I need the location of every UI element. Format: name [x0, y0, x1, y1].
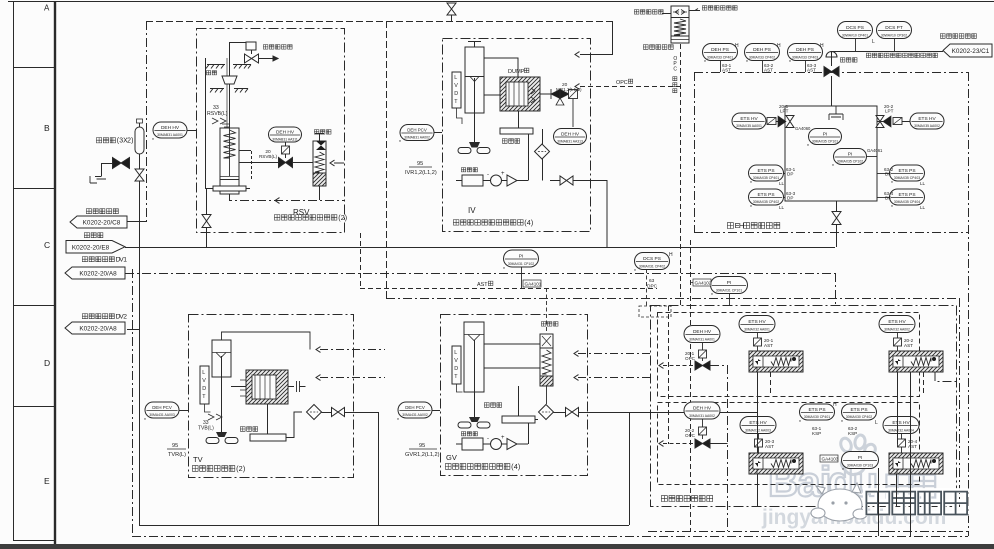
label 蓄调器 GV [461, 432, 465, 436]
svg-text:*: * [704, 60, 706, 66]
svg-text:PI: PI [848, 151, 853, 157]
svg-text:LL: LL [920, 205, 926, 210]
svg-text:30WAV10 CP302: 30WAV10 CP302 [881, 34, 907, 38]
svg-text:DEH HV: DEH HV [161, 125, 180, 131]
svg-text:*: * [842, 468, 844, 474]
trip valve 1 [695, 361, 710, 370]
test valve left black [778, 116, 786, 127]
instrument ETS PS trip L [842, 404, 877, 420]
outer boundary right edge [968, 72, 970, 536]
svg-text:AST: AST [764, 343, 773, 348]
watermark 经验 [886, 475, 909, 498]
DV2 line into TV area [127, 329, 139, 331]
RSV drain line [230, 194, 345, 201]
svg-text:TVR(L): TVR(L) [168, 452, 186, 458]
GV controller box [462, 438, 483, 450]
svg-text:GA4102: GA4102 [695, 281, 712, 286]
solenoid square trip1 [699, 350, 707, 358]
OPC line arrow [580, 86, 680, 88]
wire diaphragm valve down to test block [831, 76, 833, 106]
svg-text:C: C [44, 240, 50, 250]
tag K0202-20/A8 DV2 [82, 314, 87, 319]
instrument ETS HV left [732, 113, 766, 129]
svg-text:K0202-20/C8: K0202-20/C8 [83, 220, 121, 227]
ETS cartridge block 20-4 [889, 453, 943, 474]
label 伺服阀 TV [240, 427, 245, 432]
EH test block manifold [785, 106, 877, 201]
dashed drop x923 [923, 372, 925, 396]
dashed vertical x360 [360, 233, 362, 288]
wire DEH HV to RSV box [187, 130, 196, 132]
instrument DEH PS 1 [703, 44, 738, 61]
svg-text:V: V [202, 378, 206, 384]
GV drain drop x629 [629, 412, 631, 525]
instrument ETS PS 63-4 [890, 189, 925, 205]
instrument ETS PS 63-2 [890, 165, 925, 181]
watermark cat mascot [811, 483, 867, 521]
GV piston rod [474, 340, 476, 420]
svg-text:K0202-20/A8: K0202-20/A8 [79, 271, 117, 278]
trip drain header y531 [648, 531, 968, 533]
svg-text:GVR1,2(L1,2): GVR1,2(L1,2) [405, 452, 440, 458]
dashed drop x690 [690, 240, 692, 531]
instrument PI mid [504, 250, 539, 267]
svg-text:K0202-20/E8: K0202-20/E8 [72, 244, 110, 251]
svg-text:DEH HV: DEH HV [693, 405, 712, 411]
instrument ETS PS 63-3 [749, 189, 784, 205]
svg-text:L: L [454, 75, 457, 81]
svg-text:LPT: LPT [780, 109, 789, 114]
svg-text:H: H [735, 43, 739, 49]
controller box [462, 175, 483, 186]
svg-text:30MAX31 CP102: 30MAX31 CP102 [508, 262, 534, 266]
svg-text:30MAX31 CP402: 30MAX31 CP402 [639, 265, 665, 269]
svg-text:): ) [345, 214, 347, 222]
trip control block box [651, 306, 957, 507]
trip inner dashed box upper [658, 313, 920, 397]
svg-text:*: * [399, 140, 401, 146]
svg-text:C: C [673, 66, 677, 72]
svg-text:L: L [454, 350, 457, 356]
label 压缩空气进 [634, 10, 639, 15]
svg-text:OPC: OPC [685, 433, 696, 438]
solenoid square ETS 20-2 [894, 338, 902, 346]
amplifier triangle [507, 175, 517, 186]
svg-text:30MAX33 CP401: 30MAX33 CP401 [707, 56, 733, 60]
TV trip inlet arrows [316, 347, 321, 353]
wire top stub [451, 4, 453, 21]
svg-text:95: 95 [172, 443, 178, 449]
svg-text:DP: DP [787, 196, 793, 201]
TV cylinder body [212, 340, 231, 377]
svg-text:30MAX32 AA002: 30MAX32 AA002 [884, 328, 910, 332]
svg-text:A: A [44, 4, 50, 13]
OPC vertical dashed x680 [680, 44, 682, 306]
svg-text:-: - [487, 436, 489, 442]
svg-text:ETS PS: ETS PS [808, 407, 825, 413]
wire PI2 to manifold [867, 156, 878, 158]
instrument ETS PS trip H [800, 404, 835, 420]
instrument PI right mid [711, 277, 748, 294]
svg-text:DCS PS: DCS PS [846, 25, 864, 31]
svg-text:H: H [777, 43, 781, 49]
small dashed box below DCS PS [639, 306, 671, 317]
svg-text:*: * [397, 418, 399, 424]
svg-text:PI: PI [858, 455, 863, 461]
svg-text:LL: LL [779, 181, 785, 186]
wires GV controller [456, 423, 529, 444]
capacitor symbol right of servo [288, 381, 306, 392]
instrument DEH HV trip1 [684, 326, 720, 343]
svg-text:E: E [44, 476, 50, 486]
svg-text:KSP: KSP [812, 431, 821, 436]
svg-text:DEH PCV: DEH PCV [152, 405, 172, 410]
svg-text:AST: AST [477, 282, 488, 288]
instrument DCS PS top [838, 22, 873, 39]
svg-text:D: D [454, 366, 458, 372]
top dashed header line [146, 21, 612, 23]
svg-text:AST: AST [722, 68, 731, 73]
label GA4103 [820, 455, 838, 462]
wire ETS PS 63-2 [877, 173, 890, 175]
test valve right black [883, 116, 891, 127]
svg-text:30MAX35 AA002: 30MAX35 AA002 [914, 124, 940, 128]
svg-text:DEH PCV: DEH PCV [407, 127, 427, 132]
tag K0202-23/C1 [943, 44, 992, 57]
label 卸载阀 GV [541, 322, 546, 327]
svg-text:ETS PS: ETS PS [757, 168, 774, 174]
wire ETS PS 63-1 [784, 173, 786, 175]
svg-text:+: + [501, 171, 505, 177]
svg-text:30MAX33 CP403: 30MAX33 CP403 [792, 56, 818, 60]
svg-text:LPT: LPT [885, 109, 894, 114]
svg-text:30WAV10 CP401: 30WAV10 CP401 [842, 34, 868, 38]
page top border [8, 1, 994, 3]
steam valve disc [222, 76, 237, 84]
wire compressed air in [662, 13, 671, 15]
svg-text:95: 95 [417, 161, 423, 167]
TV unit box [189, 315, 354, 478]
wire cylinder to dump valve [484, 58, 518, 77]
wire PS drain [878, 468, 880, 536]
RSV cylinder left guide line [206, 58, 251, 189]
svg-text:PI: PI [519, 253, 524, 259]
svg-text:H: H [669, 252, 673, 258]
RSV base plate [213, 186, 246, 191]
svg-text:RSVB(L): RSVB(L) [207, 111, 228, 117]
svg-text:30MAX30 CP103: 30MAX30 CP103 [847, 464, 873, 468]
svg-text:30MAX31 AA002: 30MAX31 AA002 [689, 414, 715, 418]
svg-text:ETS PS: ETS PS [850, 407, 867, 413]
HP oil header y247 [125, 247, 835, 249]
svg-text:DEH PCV: DEH PCV [405, 405, 425, 410]
solenoid valve RSV [285, 154, 287, 158]
svg-text:ETS PS: ETS PS [898, 192, 915, 198]
svg-text:30MAX35 AA001: 30MAX35 AA001 [736, 124, 762, 128]
svg-text:*: * [832, 164, 834, 170]
IV isolation valve [560, 176, 573, 185]
svg-text:DCS PT: DCS PT [885, 25, 903, 31]
outer boundary bottom edge [132, 536, 968, 538]
svg-text:2: 2 [123, 313, 127, 320]
divider dashed vertical x386 [386, 21, 388, 298]
svg-text:AST: AST [904, 343, 913, 348]
instrument DCS PS mid [635, 253, 670, 270]
svg-text:ETS HV: ETS HV [918, 116, 936, 122]
svg-text:LL: LL [779, 205, 785, 210]
RSV cylinder spring [224, 130, 236, 158]
svg-text:DP: DP [787, 172, 793, 177]
wire oil header to tag [831, 51, 943, 53]
wires GV drain [535, 413, 757, 420]
instrument DEH HV main [153, 122, 187, 138]
wire test block to HP header [836, 225, 838, 247]
GV cylinder body [464, 322, 484, 392]
row divider BC [13, 188, 55, 190]
TV filter [307, 405, 322, 420]
steam seat hatch right [233, 65, 251, 69]
svg-text:DEH HV: DEH HV [561, 131, 580, 137]
solenoid square ETS 20-1 [754, 338, 762, 346]
GV unloading/servo valve [540, 334, 553, 348]
svg-text:MR1,2(L1,2): MR1,2(L1,2) [556, 87, 582, 92]
GV amplifier [507, 439, 517, 450]
IV flapper nozzle [469, 142, 480, 148]
page bottom bar [0, 544, 994, 549]
IV piston [465, 76, 484, 78]
svg-text:*: * [152, 138, 154, 144]
svg-text:95: 95 [419, 443, 425, 449]
wire arrow opc2 [659, 441, 664, 447]
servo base plate [500, 128, 533, 134]
svg-text:ETS PS: ETS PS [757, 192, 774, 198]
accumulator 蓄能器(3X2) [96, 138, 101, 143]
svg-text:30MAX35 CP101: 30MAX35 CP101 [812, 140, 838, 144]
wire DEH PS 3 stem [805, 61, 807, 73]
svg-text:ETS HV: ETS HV [892, 420, 910, 426]
steam seat hatch left [206, 65, 225, 69]
svg-text:D: D [454, 91, 458, 97]
trip header dash-dot line y298 [386, 298, 959, 300]
svg-text:D: D [44, 358, 50, 368]
svg-text:30MAX33 CP402: 30MAX33 CP402 [749, 56, 775, 60]
label 伺服阀 IV [502, 139, 507, 144]
label 直抽气进上图 [702, 6, 707, 11]
svg-text:PI: PI [727, 280, 732, 286]
instrument ETS HV trip3 [740, 417, 776, 434]
svg-text:DUMP: DUMP [508, 69, 525, 75]
svg-text:IV: IV [468, 206, 476, 215]
svg-text:AST: AST [908, 444, 917, 449]
svg-text:GA4101: GA4101 [525, 282, 542, 287]
IV filter [535, 144, 550, 159]
svg-text:RSVB(L): RSVB(L) [259, 154, 278, 159]
wire TV base to filter [286, 412, 302, 438]
wire solenoid to unloading valve [293, 162, 314, 164]
accumulator drain valve [135, 169, 144, 181]
svg-text:*: * [634, 269, 636, 275]
row divider AB [13, 67, 55, 69]
instrument DEH PCV GV [398, 402, 432, 418]
svg-text:GV: GV [446, 453, 457, 462]
RSV outer dashed edge x146 [146, 21, 148, 221]
wire DEH to solenoid [285, 142, 287, 146]
trip header right drop x959 [959, 298, 961, 507]
OPC feed dashed x668 [668, 306, 670, 444]
svg-text:30MAX35 CP402: 30MAX35 CP402 [753, 200, 779, 204]
svg-text:DCS PS: DCS PS [643, 256, 661, 262]
wire LVDT stem [457, 108, 463, 124]
svg-text:30MAX30 CP401: 30MAX30 CP401 [804, 415, 830, 419]
instrument ETS HV trip4 [883, 417, 919, 434]
wire PI right stem [729, 294, 731, 306]
svg-text:GA4060: GA4060 [795, 126, 811, 131]
instrument ETS HV trip1 [739, 316, 775, 333]
instrument DEH PS 3 [788, 44, 823, 61]
label 隔膜阀 [840, 58, 845, 63]
svg-text:*: * [789, 60, 791, 66]
instrument DEH HV trip2 [684, 402, 720, 419]
label trip block [661, 496, 667, 502]
svg-text:*: * [841, 420, 843, 426]
instrument DEH HV RSV [269, 127, 302, 142]
svg-text:30MAX32 AA001: 30MAX32 AA001 [744, 328, 770, 332]
accumulator isolation valve [113, 158, 130, 169]
IV piston rod [474, 78, 476, 142]
svg-text:DEH PS: DEH PS [711, 47, 729, 53]
svg-text:DPC: DPC [647, 284, 658, 290]
EH test area box top y72 [694, 72, 968, 74]
row divider DE [13, 406, 55, 408]
unloading valve body [313, 141, 326, 186]
svg-text:*: * [891, 181, 893, 187]
instrument ETS PS 63-1 [749, 165, 784, 181]
IV cylinder body [465, 47, 484, 113]
svg-text:K0202-23/C1: K0202-23/C1 [952, 48, 990, 55]
svg-text:V: V [454, 358, 458, 364]
valve on top stub [447, 3, 456, 15]
RSV cylinder ports [239, 150, 251, 152]
svg-text:DEH HV: DEH HV [693, 329, 712, 335]
test solenoid small box left [767, 118, 776, 125]
svg-text:D: D [202, 386, 206, 392]
DUMP valve block [500, 77, 540, 111]
svg-text:*: * [750, 205, 752, 211]
svg-text:AST: AST [765, 444, 774, 449]
svg-text:30MAX35 CP401: 30MAX35 CP401 [753, 176, 779, 180]
steam valve stem [229, 58, 231, 128]
svg-text:L: L [875, 420, 878, 426]
svg-text:H: H [820, 43, 824, 49]
instrument DEH PCV TV [145, 402, 179, 418]
ETS cartridge block 20-2 [889, 351, 943, 372]
tag K0202-20/E8 [84, 233, 89, 238]
label 伺服阀 GV [484, 403, 489, 408]
LVDT IV [452, 72, 461, 108]
instrument PI test 2 [834, 149, 867, 165]
steam seat hatch lower [210, 89, 224, 93]
instrument PI trip [842, 452, 879, 469]
wire DCS PS stem [646, 269, 648, 306]
svg-text:*: * [711, 293, 713, 299]
svg-text:30MAB31 AA002: 30MAB31 AA002 [404, 136, 430, 140]
wire right test branch [877, 121, 910, 123]
wire DEH PS 2 stem [762, 61, 764, 73]
watermark 汽机技术 [865, 491, 888, 514]
svg-text:*: * [891, 205, 893, 211]
svg-text:ETS PS: ETS PS [898, 168, 915, 174]
wire block2 drain [910, 372, 912, 536]
position pickup symbol [212, 118, 226, 124]
solenoid square ETS 20-4 [898, 439, 906, 447]
wire block2 right connector [935, 372, 956, 382]
svg-text:30MAX35 CP102: 30MAX35 CP102 [837, 160, 863, 164]
svg-text:AST: AST [764, 68, 773, 73]
wire DCS stems [855, 39, 857, 52]
IV cylinder top stem [474, 41, 476, 47]
svg-text:30MAX32 AA003: 30MAX32 AA003 [745, 429, 771, 433]
GV flapper [469, 417, 480, 422]
svg-text:30MAX31 CP101: 30MAX31 CP101 [716, 289, 742, 293]
DV1 drop x835 [835, 273, 837, 306]
svg-text:*: * [746, 60, 748, 66]
wire cylinder to servo [231, 386, 246, 388]
label GA4101 [523, 280, 541, 287]
solenoid valve MR1,2 [540, 89, 551, 99]
row divider CD [13, 305, 55, 307]
wire valve2 out [710, 443, 728, 445]
label EH test block [727, 223, 733, 229]
wire block2 to block4 [897, 372, 899, 444]
EH test area box bottom y232 [694, 232, 968, 234]
wire block1 to block3 [757, 372, 759, 453]
left return riser x139 [139, 222, 141, 525]
left frame thin line [13, 1, 15, 541]
svg-text:TVB(L): TVB(L) [198, 426, 214, 432]
svg-text:ETS HV: ETS HV [748, 319, 766, 325]
svg-text:30MAX35 CP403: 30MAX35 CP403 [894, 176, 920, 180]
wire block3 drain [757, 474, 759, 507]
TV base plate [250, 434, 286, 441]
EH test block bottom valve [836, 201, 838, 211]
left frame thick line [54, 1, 56, 544]
svg-text:*: * [750, 181, 752, 187]
svg-text:30MA431 AA003: 30MA431 AA003 [149, 413, 175, 417]
svg-text:IVR1,2(L1,2): IVR1,2(L1,2) [405, 170, 437, 176]
svg-text:30MAX30 CP402: 30MAX30 CP402 [846, 415, 872, 419]
svg-text:L: L [872, 39, 875, 45]
solenoid square ETS 20-3 [755, 439, 763, 447]
oil test valve 油动试验阀 [246, 42, 256, 50]
RSV unit box [197, 29, 345, 233]
svg-text:30MAB31 AA313: 30MAB31 AA313 [557, 140, 583, 144]
instrument ETS HV trip2 [879, 316, 915, 333]
wire DEH PS 1 stem [720, 61, 722, 73]
IV unit box [443, 39, 591, 232]
wires controller chain [456, 134, 529, 181]
RSV supply valve [206, 188, 208, 247]
instrument DEH PS 2 [745, 44, 780, 61]
svg-text:DP: DP [885, 172, 891, 177]
svg-text:OPC: OPC [685, 356, 696, 361]
instrument DEH PCV IV [400, 125, 434, 141]
svg-text:L: L [202, 370, 205, 376]
GV filter [539, 405, 554, 420]
RSV cylinder body [220, 128, 239, 194]
wire air to top [689, 9, 700, 11]
solenoid pilot square RSV [282, 146, 290, 154]
wire GV valve stem dashed to AST [546, 288, 548, 334]
